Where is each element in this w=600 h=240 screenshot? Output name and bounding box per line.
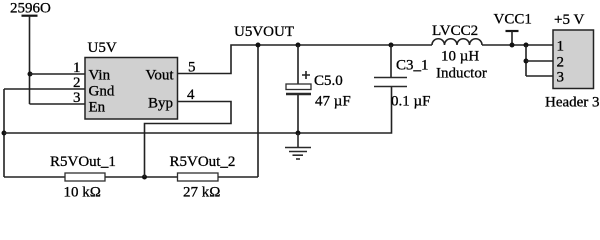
svg-text:1: 1 — [73, 60, 81, 76]
svg-text:Byp: Byp — [148, 96, 173, 112]
wire 2596O vertical — [29, 16, 31, 104]
regulator U5V box — [85, 58, 178, 120]
node ground-left junction — [2, 131, 7, 136]
svg-text:0.1 µF: 0.1 µF — [391, 93, 431, 109]
capacitor C3_1 bottom plate — [374, 86, 407, 88]
svg-text:27 kΩ: 27 kΩ — [183, 185, 220, 201]
node resistor junction — [142, 175, 147, 180]
wire inductor to header — [482, 44, 553, 46]
wire bottom bus — [4, 176, 258, 178]
svg-text:Inductor: Inductor — [436, 66, 487, 82]
capacitor C5.0 bottom wire — [297, 95, 299, 133]
capacitor C3_1 top wire — [390, 45, 392, 78]
wire pin1 Vin — [30, 73, 85, 75]
wire pin5 Vout to top bus — [178, 45, 432, 74]
wire R2 to U5VOUT vertical — [257, 45, 259, 177]
inductor LVCC2 — [432, 39, 482, 45]
node U5VOUT junction — [256, 43, 261, 48]
capacitor C5.0 plus sign — [302, 71, 310, 79]
svg-text:4: 4 — [187, 87, 195, 103]
capacitor C5.0 bottom plate — [286, 93, 311, 95]
node VCC1 junction — [510, 43, 515, 48]
svg-text:3: 3 — [557, 70, 565, 86]
node ground junction — [296, 131, 301, 136]
svg-text:2: 2 — [557, 55, 565, 71]
svg-text:VCC1: VCC1 — [494, 11, 532, 27]
wire VCC1 stub — [511, 31, 513, 45]
svg-text:+5 V: +5 V — [554, 12, 584, 28]
wire pin2 Gnd left — [4, 88, 85, 90]
ground symbol — [285, 133, 311, 159]
svg-text:U5VOUT: U5VOUT — [234, 24, 294, 40]
svg-text:1: 1 — [557, 39, 565, 55]
node header junction top — [524, 43, 529, 48]
svg-text:R5VOut_1: R5VOut_1 — [50, 154, 116, 170]
resistor R5VOut_2 — [178, 173, 219, 181]
svg-text:LVCC2: LVCC2 — [432, 23, 478, 39]
power stub VCC1 bar — [506, 30, 519, 32]
wire header branch vertical — [525, 45, 527, 76]
header J box — [553, 30, 594, 89]
svg-text:C3_1: C3_1 — [396, 58, 429, 74]
svg-text:Vout: Vout — [146, 67, 175, 83]
resistor R5VOut_1 — [65, 173, 105, 181]
svg-text:10 µH: 10 µH — [441, 49, 479, 65]
node C3 junction — [389, 43, 394, 48]
node C5 junction — [296, 43, 301, 48]
svg-text:Vin: Vin — [89, 67, 111, 83]
power stub 2596O bar — [22, 15, 38, 17]
svg-text:3: 3 — [73, 90, 81, 106]
node junction input — [28, 72, 33, 77]
wire header pin2 — [526, 60, 553, 62]
svg-text:10 kΩ: 10 kΩ — [64, 185, 101, 201]
svg-text:C5.0: C5.0 — [314, 73, 343, 89]
wire left vertical — [3, 89, 5, 177]
svg-text:Gnd: Gnd — [89, 83, 115, 99]
svg-text:En: En — [89, 99, 106, 115]
capacitor C5.0 top wire — [297, 45, 299, 84]
svg-text:Header 3: Header 3 — [545, 95, 600, 111]
svg-text:47 µF: 47 µF — [315, 94, 351, 110]
capacitor C5.0 top plate — [286, 84, 311, 90]
svg-text:R5VOut_2: R5VOut_2 — [170, 154, 236, 170]
wire feedback Byp path — [145, 102, 232, 178]
node header junction mid — [524, 59, 529, 64]
wire pin3 En — [30, 103, 86, 105]
svg-text:2: 2 — [73, 75, 81, 91]
svg-text:U5V: U5V — [88, 40, 117, 56]
wire ground bus — [4, 87, 392, 134]
wire header pin3 — [526, 75, 553, 77]
capacitor C3_1 top plate — [374, 77, 407, 79]
svg-text:2596O: 2596O — [10, 1, 51, 17]
